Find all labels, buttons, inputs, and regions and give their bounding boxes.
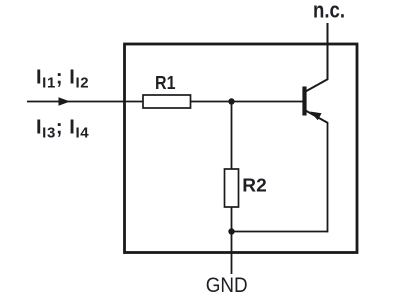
- transistor Q1 collector diagonal: [306, 79, 329, 92]
- svg-text:n.c.: n.c.: [313, 0, 345, 23]
- wire R1 to base: [191, 101, 303, 103]
- svg-text:GND: GND: [206, 273, 248, 297]
- wire node to R2: [231, 102, 233, 170]
- wire R2 to bottom node: [231, 207, 233, 232]
- node junction bottom: [228, 228, 234, 234]
- resistor R1: [143, 95, 191, 108]
- IC outline box: [125, 44, 358, 253]
- wire bottom horizontal to emitter: [232, 231, 328, 233]
- wire GND stem: [231, 232, 233, 275]
- resistor R2: [225, 169, 239, 207]
- input arrowhead: [59, 97, 71, 105]
- svg-text:R2: R2: [242, 176, 266, 196]
- svg-text:II3; II4: II3; II4: [36, 116, 89, 141]
- svg-text:R1: R1: [155, 72, 176, 93]
- wire n.c. stem to collector: [327, 23, 329, 80]
- node junction top: [228, 98, 234, 104]
- wire emitter vertical: [327, 123, 329, 233]
- svg-text:II1; II2: II1; II2: [36, 67, 89, 92]
- wire input left segment: [27, 101, 143, 103]
- transistor Q1 emitter diagonal: [306, 111, 329, 124]
- transistor Q1 emitter arrow: [310, 112, 322, 121]
- transistor Q1 base bar: [302, 87, 306, 116]
